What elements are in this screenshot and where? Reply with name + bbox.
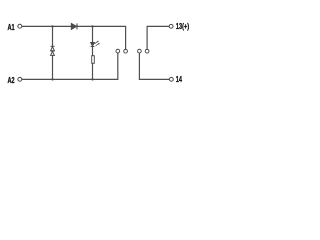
suppressor diode V1 (two stacked diodes on left branch) [51,46,55,55]
contact plug c3 [138,49,142,53]
node junction top-left [51,25,53,27]
svg-text:13(+): 13(+) [176,23,189,31]
LED emission arrows [95,41,100,46]
node junction top-right [91,25,93,27]
svg-text:A1: A1 [8,24,15,32]
terminal 13(+) [169,24,173,28]
wire contact c3 to terminal 14 [139,53,169,79]
contact plug c2 [124,49,128,53]
wire A2 bottom rail [22,53,118,79]
terminal A1 [18,24,22,28]
wire LED branch [92,26,94,79]
node junction bottom-left [51,78,53,80]
terminal A2 [18,77,22,81]
resistor R1 [92,56,95,64]
contact plug c1 [116,49,120,53]
wire TVS branch [52,26,54,79]
svg-text:14: 14 [176,76,182,84]
contact plug c4 [145,49,149,53]
svg-text:A2: A2 [8,77,15,85]
wire contact c4 to terminal 13 [147,26,169,49]
LED indicator [91,43,95,47]
node junction bottom-right [91,78,93,80]
wire A1 top rail [22,26,126,49]
diode D1 (series, on top rail) [71,23,77,29]
terminal 14 [169,77,173,81]
